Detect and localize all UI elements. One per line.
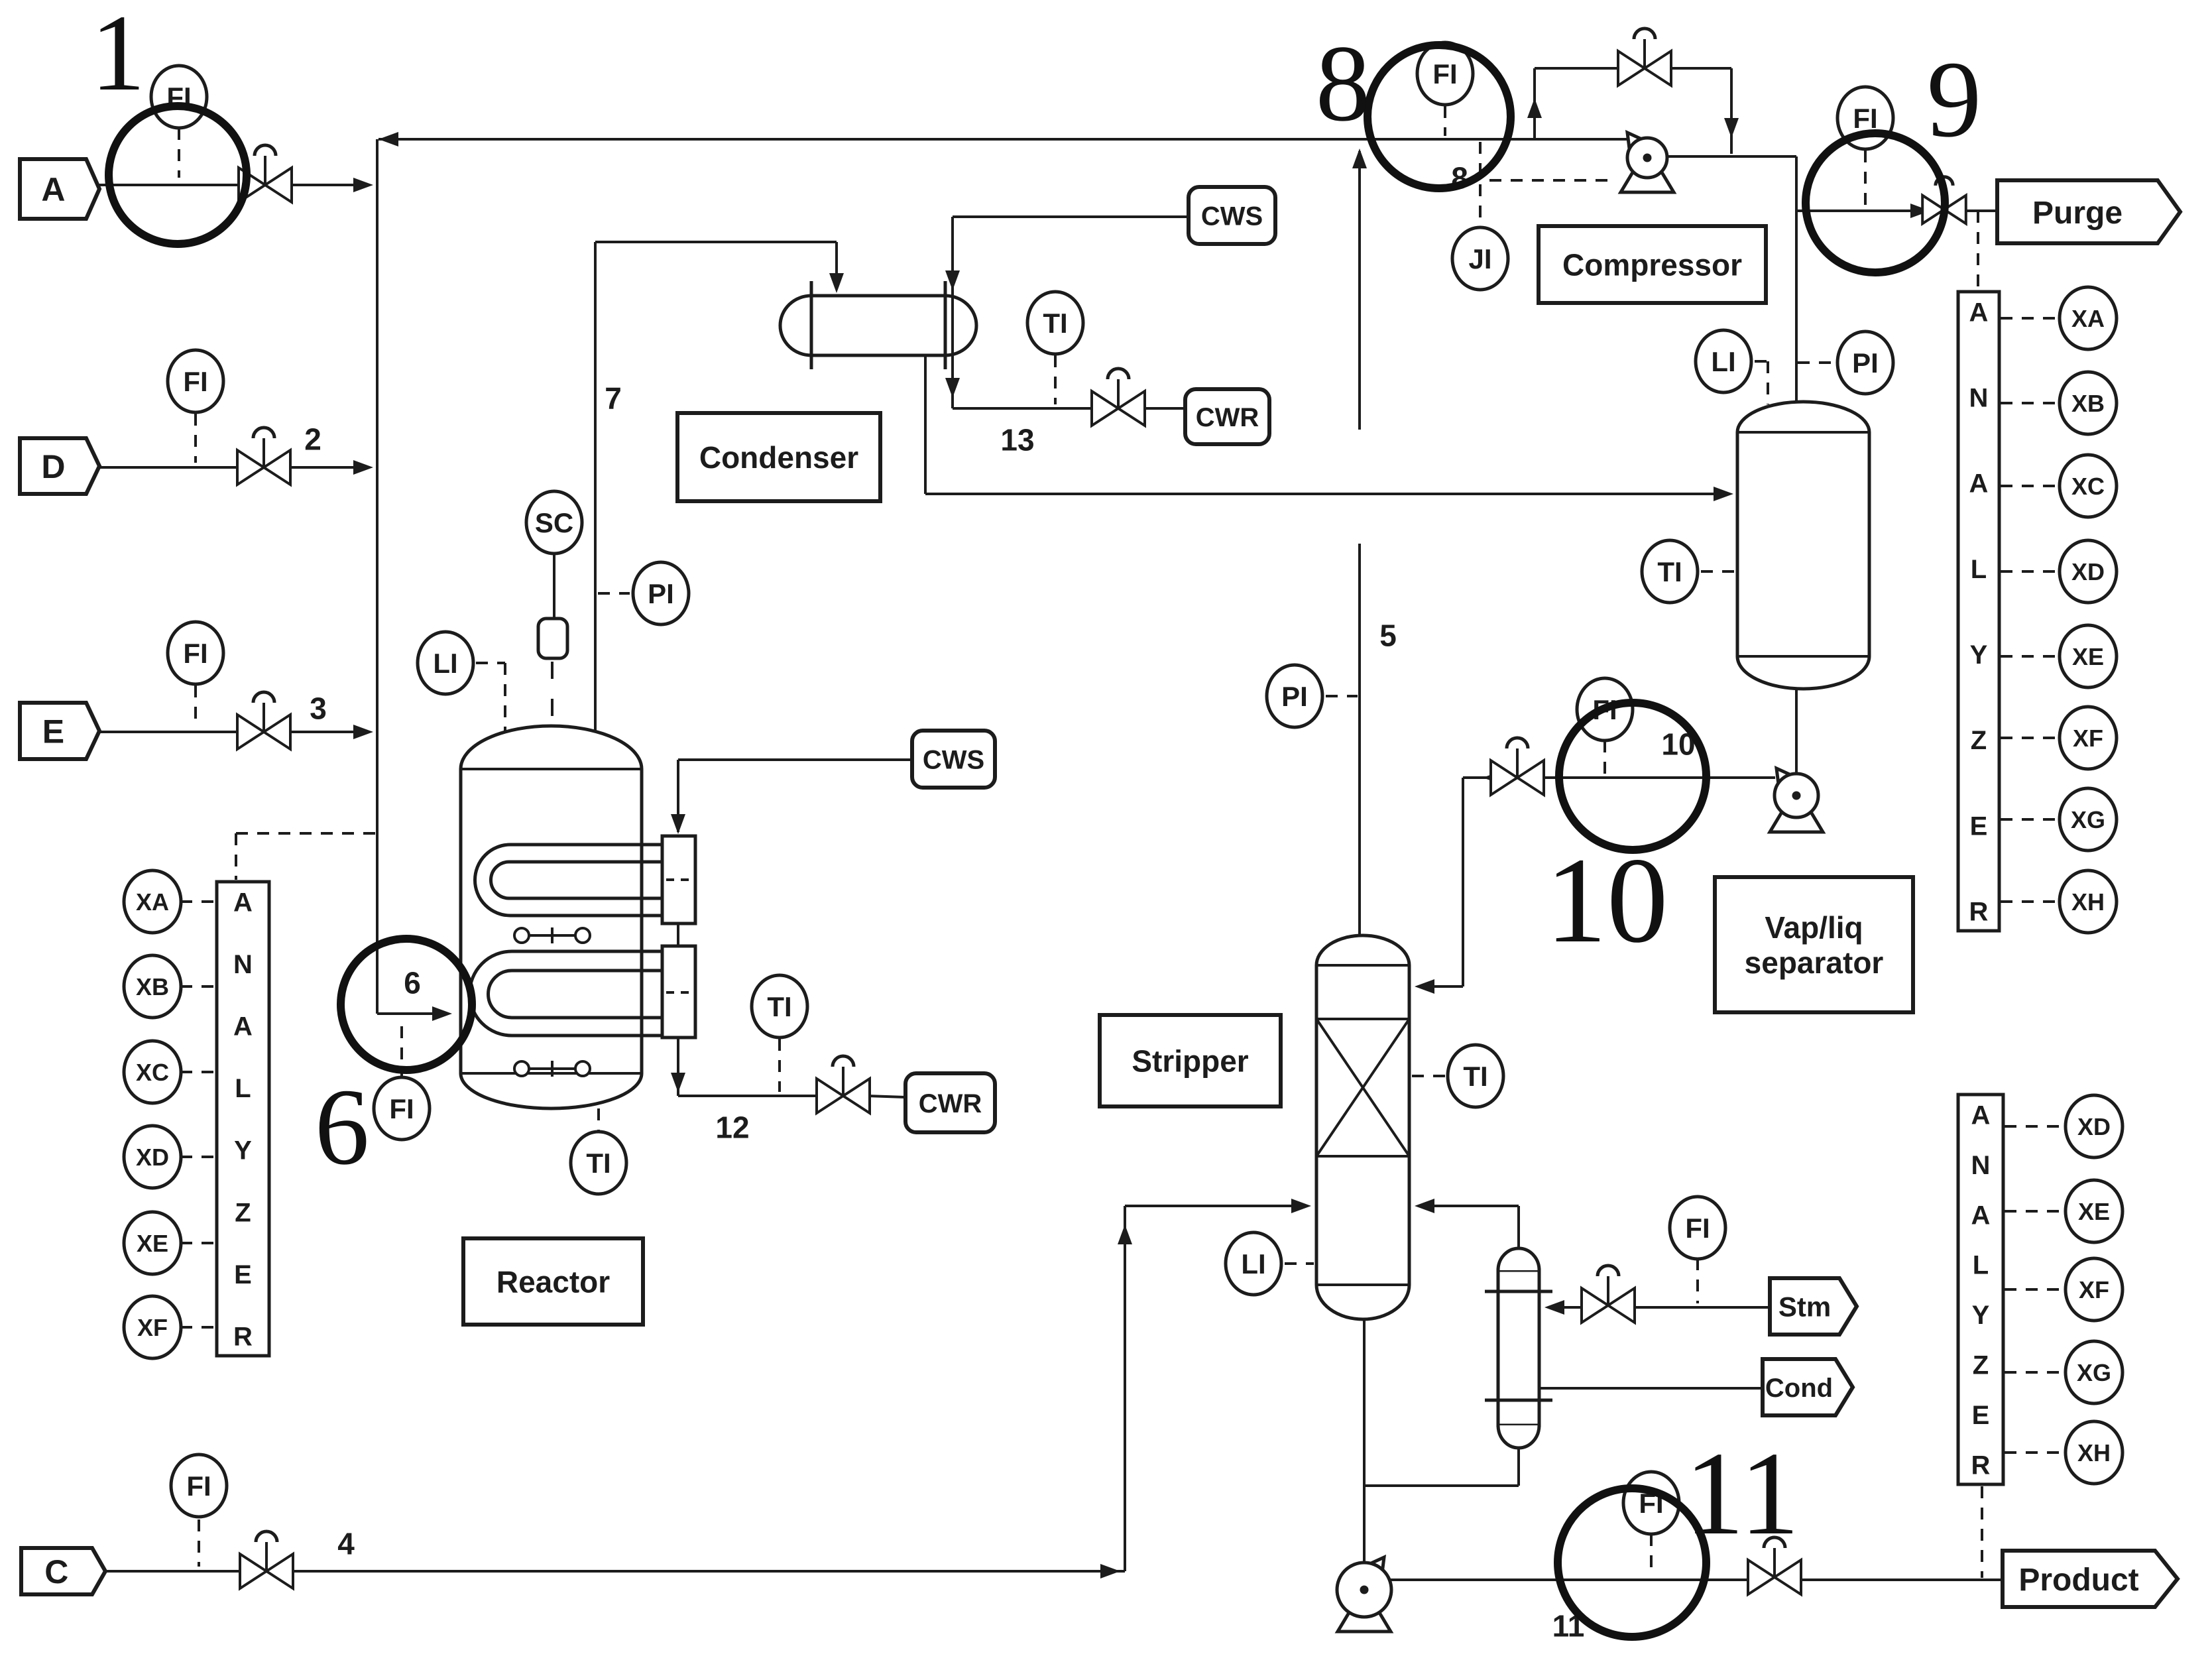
svg-text:XE: XE — [2078, 1198, 2110, 1225]
wire TI-reactor-coil dashed tap — [778, 1039, 781, 1092]
wire right-bottom analyzer stub y1945 — [2005, 1288, 2066, 1291]
reactor vessel — [461, 726, 642, 1108]
svg-text:XG: XG — [2071, 806, 2105, 833]
wire LI-stripper dashed tap — [1285, 1262, 1314, 1265]
svg-text:XE: XE — [2072, 643, 2104, 670]
svg-text:N: N — [233, 950, 253, 979]
svg-text:Compressor: Compressor — [1562, 248, 1742, 282]
svg-text:CWR: CWR — [1196, 403, 1259, 432]
svg-text:Y: Y — [1970, 640, 1988, 670]
wire separator inlet drop — [1795, 156, 1798, 407]
valve product — [1748, 1560, 1775, 1594]
svg-text:XH: XH — [2071, 888, 2105, 916]
stripper bottoms pump — [1338, 1612, 1391, 1632]
composition tap XE right-bottom — [2066, 1180, 2123, 1242]
svg-text:FI: FI — [183, 638, 207, 669]
wire stream 7 riser — [594, 242, 597, 731]
composition tap XA left — [124, 870, 181, 933]
compressor machine symbol — [1621, 172, 1674, 192]
svg-text:7: 7 — [605, 381, 622, 416]
condensate tag — [1763, 1359, 1853, 1415]
svg-text:FI: FI — [186, 1470, 211, 1502]
valve feed A — [239, 168, 265, 202]
svg-text:FI: FI — [1685, 1213, 1710, 1244]
svg-text:PI: PI — [1852, 347, 1879, 379]
instrument FI feed C — [171, 1455, 227, 1517]
reactor cooling coil upper — [475, 845, 664, 916]
svg-text:13: 13 — [1000, 423, 1034, 457]
wire left analyzer stub 1 — [180, 900, 215, 903]
wire reactor CWR run — [678, 1095, 819, 1097]
wire FI-9 dashed tap — [1864, 150, 1867, 207]
svg-text:E: E — [42, 713, 64, 750]
stripper packing section — [1316, 1018, 1409, 1020]
svg-text:PI: PI — [1281, 681, 1308, 712]
svg-text:3: 3 — [310, 691, 327, 726]
wire feed header vertical — [376, 139, 378, 1014]
wire PI-separator dashed tap — [1798, 361, 1835, 364]
wire TI-condenser dashed tap — [1054, 355, 1057, 404]
wire JI-compressor dashed link — [1489, 179, 1616, 182]
separator vessel — [1737, 402, 1869, 689]
composition tap XB right-top — [2060, 372, 2117, 434]
svg-text:A: A — [41, 171, 65, 208]
wire reactor CWR valve to tag — [867, 1096, 905, 1097]
wire bypass riser left — [1533, 68, 1536, 139]
instrument FI stream 8 — [1417, 42, 1473, 105]
wire left analyzer stub 3 — [180, 1071, 215, 1073]
wire left analyzer stub 5 — [180, 1242, 215, 1244]
wire condensed stream to separator — [925, 493, 1723, 495]
wire reactor CWS run — [678, 758, 912, 761]
instrument TI stripper — [1448, 1045, 1503, 1107]
wire TI-reactor-bottom dashed tap — [597, 1108, 600, 1132]
svg-text:Stm: Stm — [1778, 1291, 1831, 1323]
svg-text:R: R — [233, 1322, 253, 1351]
svg-text:9: 9 — [1927, 38, 1982, 160]
feed tag E — [20, 703, 99, 759]
wire feed D line (stream 2) — [99, 466, 364, 469]
wire stream 7 drop into condenser — [835, 242, 838, 289]
svg-text:Y: Y — [1972, 1301, 1990, 1330]
valve purge — [1922, 196, 1944, 224]
label Condenser — [677, 413, 880, 501]
svg-text:CWR: CWR — [919, 1089, 982, 1118]
wire header to reactor arrow (stream 6) — [377, 1012, 439, 1015]
label Reactor — [463, 1238, 643, 1325]
svg-text:C: C — [44, 1553, 68, 1590]
wire condenser cooling water pipe — [951, 217, 954, 408]
svg-text:LI: LI — [1711, 346, 1735, 377]
wire stream 10 drop — [1462, 778, 1464, 986]
svg-text:Z: Z — [1973, 1351, 1989, 1380]
label Vap/liq separator — [1715, 877, 1913, 1012]
composition tap XF right-top — [2060, 707, 2117, 769]
svg-text:R: R — [1971, 1451, 1991, 1480]
wire condenser CWR valve to tag — [1142, 407, 1185, 410]
wire stripper bottoms drop — [1363, 1319, 1366, 1566]
instrument JI compressor — [1452, 227, 1508, 290]
highlight circle 11 — [1558, 1488, 1706, 1637]
svg-text:XB: XB — [2071, 390, 2105, 417]
svg-text:XC: XC — [2071, 473, 2105, 500]
condenser shell — [811, 296, 945, 355]
valve condenser CWR (stream 13) — [1092, 391, 1118, 426]
composition tap XG right-top — [2060, 788, 2117, 851]
wire separator bottoms — [1795, 688, 1798, 775]
svg-text:LI: LI — [1241, 1248, 1265, 1280]
svg-text:L: L — [1973, 1251, 1989, 1280]
wire reactor coil connector — [677, 923, 679, 946]
wire LI-reactor dashed tap — [476, 662, 505, 664]
svg-text:Cond: Cond — [1765, 1374, 1833, 1403]
svg-text:FI: FI — [183, 366, 207, 397]
wire reactor CWR drop (stream 12) — [677, 1038, 679, 1096]
instrument PI stripper — [1267, 665, 1322, 727]
instrument TI reactor coil — [752, 975, 807, 1038]
composition tap XC right-top — [2060, 455, 2117, 517]
reactor agitator upper — [514, 928, 529, 943]
svg-text:TI: TI — [586, 1148, 611, 1179]
instrument TI reactor bottom — [571, 1132, 626, 1194]
composition tap XE left — [124, 1212, 181, 1274]
label Stripper — [1100, 1015, 1281, 1106]
CWR tag reactor — [905, 1073, 995, 1132]
svg-text:10: 10 — [1546, 833, 1668, 969]
wire SC to agitator — [553, 552, 555, 619]
right-bottom analyzer box — [1958, 1095, 2003, 1484]
wire stream 7 top run — [595, 241, 837, 243]
composition tap XD right-bottom — [2066, 1095, 2123, 1158]
svg-text:4: 4 — [337, 1527, 355, 1561]
svg-text:Vap/liq: Vap/liq — [1765, 910, 1863, 945]
svg-text:XF: XF — [2079, 1276, 2109, 1303]
instrument SC agitator — [526, 491, 582, 554]
wire FI-8 dashed tap — [1444, 106, 1446, 136]
svg-text:XB: XB — [136, 973, 169, 1000]
svg-text:TI: TI — [767, 991, 791, 1022]
svg-text:XD: XD — [2071, 558, 2105, 585]
valve reactor CWR (stream 12) — [817, 1079, 843, 1113]
wire right-top analyzer stub y1236 — [2001, 818, 2060, 821]
svg-text:12: 12 — [715, 1110, 749, 1145]
svg-text:TI: TI — [1043, 308, 1067, 339]
reactor cooling coil lower — [470, 951, 664, 1036]
svg-text:L: L — [235, 1074, 251, 1103]
instrument FI steam — [1670, 1197, 1725, 1259]
svg-text:N: N — [1969, 384, 1989, 413]
highlight circle 1 — [109, 106, 247, 244]
wire FI-10 dashed tap — [1603, 741, 1606, 774]
svg-text:XA: XA — [136, 888, 169, 916]
wire left analyzer stub 4 — [180, 1156, 215, 1158]
wire right-top analyzer stub y1113 — [2001, 737, 2060, 739]
svg-text:E: E — [1970, 811, 1988, 841]
composition tap XD left — [124, 1126, 181, 1188]
wire product line (stream 11) — [1387, 1579, 1757, 1581]
feed tag D — [20, 438, 99, 494]
svg-text:XH: XH — [2077, 1439, 2111, 1466]
wire LI-separator dashed tap — [1755, 360, 1768, 363]
wire right-top analyzer stub y1360 — [2001, 900, 2060, 903]
reactor coil nozzle box upper — [662, 836, 695, 923]
wire feed E line (stream 3) — [99, 731, 364, 733]
wire bypass top run — [1535, 67, 1618, 70]
valve feed C (stream 4) — [240, 1554, 266, 1588]
wire right-bottom analyzer stub y2191 — [2005, 1451, 2066, 1454]
composition tap XB left — [124, 955, 181, 1018]
svg-text:FI: FI — [389, 1093, 414, 1124]
reboiler shell — [1498, 1270, 1539, 1425]
wire C feed riser — [1124, 1206, 1126, 1571]
svg-text:CWS: CWS — [923, 745, 984, 774]
wire reboiler return to stripper — [1517, 1206, 1520, 1248]
wire JI dashed tap — [1479, 142, 1482, 226]
instrument PI separator — [1837, 331, 1893, 394]
svg-text:Purge: Purge — [2032, 196, 2123, 231]
wire FI-E dashed tap — [194, 685, 197, 727]
svg-text:XE: XE — [137, 1230, 168, 1257]
feed tag C — [21, 1548, 105, 1594]
svg-text:XD: XD — [2077, 1113, 2111, 1140]
svg-text:6: 6 — [404, 966, 421, 1000]
purge tag — [1997, 180, 2180, 243]
product tag — [2003, 1551, 2178, 1607]
wire condensate line — [1539, 1387, 1763, 1390]
wire feed A line — [99, 184, 364, 186]
reboiler tubesheets — [1485, 1290, 1552, 1293]
instrument TI condenser — [1027, 292, 1083, 354]
wire right-top analyzer stub y733 — [2001, 485, 2060, 487]
instrument TI separator — [1642, 540, 1698, 603]
composition tap XD right-top — [2060, 540, 2117, 603]
composition tap XC left — [124, 1041, 181, 1103]
CWS tag condenser — [1189, 187, 1275, 244]
wire right-top analyzer stub y480 — [2001, 317, 2060, 320]
wire stream 10 run — [1544, 776, 1775, 779]
wire TI-stripper dashed tap — [1412, 1075, 1445, 1077]
wire FI-A dashed tap — [178, 128, 180, 178]
instrument FI feed E — [168, 622, 223, 684]
wire C feed into stripper — [1125, 1205, 1301, 1207]
wire condenser CWS top run — [953, 215, 1189, 218]
instrument FI feed D — [168, 350, 223, 412]
svg-text:A: A — [233, 888, 253, 917]
wire purge line (stream 9) — [1796, 209, 1920, 212]
instrument LI reactor — [418, 632, 473, 694]
valve feed D (stream 2) — [237, 450, 264, 485]
svg-text:FI: FI — [1432, 58, 1457, 89]
wire right-bottom analyzer stub y2070 — [2005, 1371, 2066, 1374]
composition tap XF left — [124, 1296, 181, 1358]
instrument FI purge — [1837, 87, 1893, 149]
wire steam line — [1625, 1306, 1770, 1309]
wire FI-D dashed tap — [194, 414, 197, 463]
svg-text:A: A — [1971, 1201, 1991, 1230]
valve steam — [1582, 1288, 1608, 1323]
wire FI-C dashed tap — [198, 1519, 200, 1567]
highlight circle 9 — [1806, 133, 1945, 272]
svg-text:L: L — [1971, 555, 1987, 584]
wire purge analyzer sample line — [1977, 211, 1979, 290]
svg-text:6: 6 — [315, 1066, 370, 1187]
highlight circle 6 — [341, 939, 472, 1070]
wire right-bottom analyzer stub y1827 — [2005, 1210, 2066, 1213]
composition tap XA right-top — [2060, 287, 2117, 349]
svg-text:11: 11 — [1684, 1427, 1799, 1559]
wire stream 10 into stripper — [1425, 985, 1463, 988]
wire FI-11 dashed tap — [1650, 1534, 1653, 1576]
wire reactor agitator dashed centerline — [551, 662, 553, 720]
CWS tag reactor — [912, 731, 995, 788]
valve feed E (stream 3) — [237, 715, 264, 749]
wire PI-reactor dashed tap — [598, 592, 630, 595]
svg-text:A: A — [1969, 298, 1989, 327]
svg-text:Z: Z — [1971, 726, 1987, 755]
svg-text:LI: LI — [433, 648, 457, 679]
instrument LI separator — [1696, 330, 1751, 392]
svg-text:Condenser: Condenser — [699, 440, 858, 475]
label Compressor — [1539, 226, 1766, 303]
wire compressor discharge — [1666, 155, 1796, 158]
svg-text:PI: PI — [648, 578, 674, 609]
instrument FI product — [1623, 1472, 1679, 1534]
svg-text:A: A — [1969, 469, 1989, 499]
svg-text:SC: SC — [535, 507, 573, 538]
wire right-top analyzer stub y990 — [2001, 655, 2060, 658]
wire condenser outlet drop — [924, 355, 927, 494]
svg-text:5: 5 — [1379, 619, 1397, 653]
svg-text:XG: XG — [2077, 1359, 2111, 1386]
svg-text:XF: XF — [2073, 725, 2103, 752]
wire FI-6 dashed tap — [400, 1026, 403, 1078]
instrument PI reactor — [633, 562, 689, 625]
right-top analyzer box — [1958, 292, 1999, 931]
instrument FI feed A — [151, 66, 207, 128]
wire stream 5 riser lower — [1358, 544, 1361, 936]
svg-text:Product: Product — [2018, 1563, 2138, 1598]
svg-text:Stripper: Stripper — [1132, 1044, 1248, 1079]
svg-text:XF: XF — [137, 1314, 168, 1341]
CWR tag condenser — [1185, 389, 1269, 444]
svg-text:Y: Y — [234, 1136, 252, 1165]
instrument FI stream 6 — [374, 1077, 430, 1140]
svg-text:N: N — [1971, 1151, 1991, 1180]
wire FI-Stm dashed tap — [1696, 1258, 1699, 1303]
wire recycle line stream 8 (top horizontal) — [378, 138, 1629, 141]
wire right-top analyzer stub y862 — [2001, 570, 2060, 573]
separator pump — [1770, 812, 1823, 832]
svg-text:XC: XC — [136, 1059, 169, 1086]
valve compressor bypass — [1618, 51, 1645, 86]
composition tap XG right-bottom — [2066, 1341, 2123, 1403]
highlight circle 8 — [1368, 45, 1511, 188]
steam tag — [1770, 1278, 1857, 1335]
svg-text:2: 2 — [304, 422, 321, 457]
svg-text:A: A — [1971, 1101, 1991, 1130]
instrument FI stream 10 — [1577, 678, 1633, 741]
svg-text:D: D — [41, 448, 65, 485]
wire stream 5 riser upper — [1358, 151, 1361, 430]
svg-text:R: R — [1969, 897, 1989, 926]
wire reboiler bottoms — [1517, 1448, 1520, 1486]
feed tag A — [20, 159, 99, 219]
composition tap XF right-bottom — [2066, 1258, 2123, 1321]
svg-text:Reactor: Reactor — [496, 1265, 610, 1299]
wire bypass riser right — [1730, 68, 1733, 154]
highlight circle 10 — [1559, 703, 1706, 850]
svg-text:A: A — [233, 1012, 253, 1042]
wire TI-separator dashed tap — [1701, 570, 1735, 573]
left analyzer box — [217, 882, 269, 1356]
stripper column — [1316, 935, 1409, 1319]
wire PI-stripper dashed tap — [1326, 695, 1358, 697]
svg-text:TI: TI — [1463, 1061, 1487, 1092]
reactor coil nozzle box lower — [662, 946, 695, 1038]
svg-text:8: 8 — [1316, 23, 1371, 144]
svg-text:Z: Z — [235, 1198, 251, 1227]
wire feed C line (stream 4) — [105, 1570, 1125, 1573]
instrument LI stripper — [1226, 1232, 1281, 1295]
svg-text:1: 1 — [91, 0, 146, 113]
svg-text:JI: JI — [1468, 243, 1491, 274]
reactor agitator lower — [514, 1061, 529, 1076]
composition tap XH right-top — [2060, 870, 2117, 933]
valve separator bottoms (stream 10) — [1491, 760, 1517, 795]
wire left analyzer stub 6 — [180, 1326, 215, 1329]
svg-text:separator: separator — [1745, 945, 1884, 980]
composition tap XH right-bottom — [2066, 1421, 2123, 1484]
svg-text:TI: TI — [1657, 556, 1682, 587]
svg-text:CWS: CWS — [1201, 202, 1263, 231]
svg-text:XA: XA — [2071, 305, 2105, 332]
composition tap XE right-top — [2060, 625, 2117, 687]
wire right-bottom analyzer stub y1699 — [2005, 1125, 2066, 1128]
wire left analyzer sample line — [236, 832, 376, 835]
wire right-top analyzer stub y608 — [2001, 402, 2060, 404]
svg-text:E: E — [234, 1260, 252, 1289]
svg-text:E: E — [1972, 1401, 1990, 1430]
wire left analyzer stub 2 — [180, 985, 215, 988]
wire product analyzer sample line — [1981, 1486, 1983, 1578]
reactor agitator drive cylinder — [538, 619, 567, 658]
svg-text:XD: XD — [136, 1144, 169, 1171]
